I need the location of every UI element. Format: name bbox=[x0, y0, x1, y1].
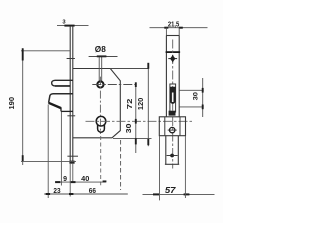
slot above follower bbox=[98, 57, 100, 82]
case bottom extension line bbox=[113, 137, 152, 139]
dimension 120 line bbox=[147, 63, 149, 146]
dimension line 9 / 40 bbox=[56, 181, 106, 183]
svg-text:66: 66 bbox=[89, 186, 96, 195]
dimension 3 (faceplate thickness) bbox=[57, 25, 89, 27]
wings extension lines down bbox=[159, 136, 161, 201]
dimension 21,5 (front view top) bbox=[150, 27, 208, 29]
dimension 72 / 30 line (right of case) bbox=[135, 85, 137, 154]
centre line vertical (lock axis) bbox=[99, 77, 101, 134]
svg-text:21,5: 21,5 bbox=[168, 20, 179, 29]
case top extension line bbox=[110, 68, 148, 70]
svg-text:57: 57 bbox=[165, 185, 176, 195]
extension line from hook step bbox=[60, 112, 62, 186]
centre line horizontal through euro cylinder (projects to front view) bbox=[86, 120, 193, 122]
svg-text:72: 72 bbox=[127, 98, 134, 109]
hook slot in plate bbox=[170, 84, 176, 112]
svg-text:190: 190 bbox=[7, 97, 16, 110]
svg-text:30: 30 bbox=[126, 123, 133, 133]
hook bolt visible in slot (dark) bbox=[170, 87, 176, 104]
lock case outline bbox=[73, 69, 121, 138]
bottom screw hole bbox=[170, 154, 174, 158]
wing fold lines bbox=[164, 117, 166, 136]
svg-text:120: 120 bbox=[136, 98, 145, 111]
svg-text:23: 23 bbox=[53, 186, 60, 195]
plate heavy line bbox=[166, 51, 181, 53]
bolt head block bbox=[169, 111, 176, 116]
wings / escutcheon box bbox=[159, 117, 185, 136]
cylinder fixing hole (front) bbox=[170, 127, 175, 132]
lower column of faceplate bbox=[165, 136, 179, 165]
faceplate tick top bbox=[67, 58, 75, 60]
top screw hole (countersunk) bbox=[170, 55, 175, 62]
extension line from hook tip bbox=[47, 105, 49, 199]
label Ø8 with leader bbox=[89, 56, 118, 58]
follower hole Ø8 (ring) bbox=[97, 81, 103, 87]
svg-text:30: 30 bbox=[193, 92, 200, 101]
svg-text:9: 9 bbox=[63, 176, 67, 183]
dimension 30 (front view right) bbox=[179, 78, 203, 117]
centre line horizontal through follower bbox=[92, 84, 136, 86]
hook blade (side view) bbox=[49, 94, 73, 103]
dimension 190 bbox=[21, 48, 76, 165]
dimension line 23 / 66 / 57 bbox=[44, 193, 128, 195]
case right edge extension (dashed) bbox=[120, 140, 122, 190]
euro cylinder hole (profile) bbox=[96, 116, 106, 126]
faceplate tick slot bottom bbox=[67, 115, 75, 117]
hook bolt arm (pill, side view) bbox=[52, 80, 73, 86]
faceplate extension lines down bbox=[69, 164, 71, 197]
faceplate (side view, double line) bbox=[70, 26, 73, 164]
faceplate bottom end block bbox=[69, 161, 74, 164]
svg-text:Ø8: Ø8 bbox=[95, 45, 107, 54]
faceplate tick lower bbox=[67, 155, 78, 157]
svg-text:40: 40 bbox=[81, 174, 89, 183]
centre line of front view bbox=[172, 40, 174, 169]
faceplate front view (upper plate) bbox=[166, 36, 179, 117]
